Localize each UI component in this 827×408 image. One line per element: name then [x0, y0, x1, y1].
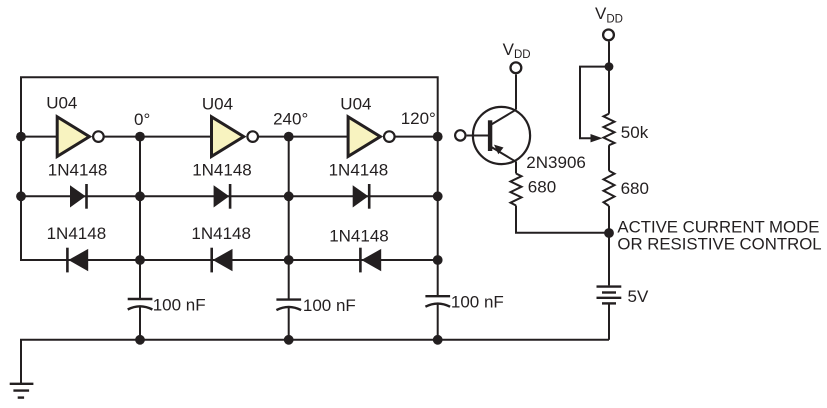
wire feedback loop: row2, left rail, top rail, right rail	[21, 77, 438, 296]
diode D4 triangle	[68, 249, 88, 271]
svg-text:1N4148: 1N4148	[48, 161, 108, 180]
wire main row node 120deg	[395, 136, 438, 138]
diode D6 1N4148 cathode bar	[359, 248, 362, 273]
svg-text:120°: 120°	[401, 109, 436, 128]
wire column 2 upper	[288, 137, 290, 300]
inverter U2 bubble	[247, 131, 258, 142]
wire column 1 upper	[139, 137, 141, 299]
svg-text:U04: U04	[202, 94, 233, 113]
svg-text:U04: U04	[46, 94, 77, 113]
inverter U3 triangle	[348, 117, 380, 157]
svg-text:5V: 5V	[628, 287, 649, 306]
wire column 2 lower	[288, 307, 290, 340]
diode D3 1N4148 triangle	[353, 185, 369, 207]
wire 50k to 680	[608, 145, 610, 171]
diode D1 1N4148 triangle	[70, 185, 86, 207]
node dot row1 right	[433, 191, 443, 201]
diode D5 triangle	[213, 249, 233, 271]
ground bar 2	[13, 389, 29, 391]
svg-text:VDD: VDD	[595, 4, 623, 25]
wire pot wiper loop	[580, 67, 609, 139]
wire base terminal to Q1	[467, 135, 488, 137]
diode D2 1N4148 triangle	[214, 185, 230, 207]
node dot rail col1	[135, 335, 145, 345]
node dot rail col2	[284, 335, 294, 345]
capacitor C3 top plate	[425, 295, 450, 297]
svg-text:240°: 240°	[273, 110, 308, 129]
node dot active node	[604, 228, 614, 238]
svg-text:1N4148: 1N4148	[191, 224, 251, 243]
svg-text:1N4148: 1N4148	[47, 224, 107, 243]
node dot row2 col2	[284, 255, 294, 265]
terminal Vdd2 circle	[603, 30, 614, 41]
terminal input circle	[455, 130, 465, 140]
diode D4 1N4148 cathode bar	[66, 248, 69, 273]
svg-text:VDD: VDD	[503, 40, 531, 61]
wire main row node 0deg	[104, 136, 211, 138]
transistor Q1 base bar	[488, 120, 492, 151]
resistor R1 680 zigzag	[511, 174, 522, 206]
capacitor C1 curved plate	[128, 306, 153, 309]
node dot row1 left	[16, 191, 26, 201]
wire right oscillator rail lower	[437, 304, 439, 340]
wire main row node 240deg	[259, 136, 349, 138]
battery B1 plate long bottom	[597, 297, 622, 299]
ground bar 3	[18, 396, 24, 398]
svg-text:2N3906: 2N3906	[526, 153, 586, 172]
potentiometer R2 50k zigzag	[604, 114, 615, 146]
diode D5 1N4148 cathode bar	[210, 248, 213, 273]
svg-text:100 nF: 100 nF	[153, 296, 206, 315]
wire main row input to U1	[21, 136, 58, 138]
wire node to battery	[608, 233, 610, 285]
node dot 240deg	[284, 132, 294, 142]
diode D6 triangle	[361, 249, 381, 271]
inverter U1 triangle	[57, 117, 89, 157]
inverter U1 bubble	[93, 131, 104, 142]
diode D2 cathode bar	[229, 184, 232, 209]
battery B1 plate short	[602, 291, 616, 293]
diode D3 cathode bar	[368, 184, 371, 209]
terminal Vdd1 circle	[511, 62, 522, 73]
wire battery to ground rail	[608, 304, 610, 340]
wire Q1 collector diagonal	[491, 110, 517, 125]
svg-text:1N4148: 1N4148	[329, 161, 389, 180]
node dot rail col3	[433, 335, 443, 345]
wire Vdd to Q1	[515, 74, 517, 109]
node dot row1 col1	[135, 191, 145, 201]
battery B1 plate short bottom	[602, 302, 616, 304]
svg-text:100 nF: 100 nF	[451, 293, 504, 312]
battery B1 plate long top	[597, 285, 622, 287]
wire R1 to node	[516, 206, 609, 233]
node dot row1 col2	[284, 191, 294, 201]
resistor R3 680 zigzag	[604, 171, 615, 206]
svg-text:680: 680	[528, 178, 556, 197]
node dot row2 right	[433, 255, 443, 265]
svg-text:OR RESISTIVE CONTROL: OR RESISTIVE CONTROL	[617, 235, 821, 254]
svg-text:100 nF: 100 nF	[303, 296, 356, 315]
wire column 1 lower	[139, 307, 141, 340]
wire Q1 emitter diagonal	[491, 147, 517, 162]
inverter U2 triangle	[212, 117, 244, 157]
wire bottom ground rail and ground stem	[21, 340, 609, 383]
inverter U3 bubble	[384, 131, 395, 142]
svg-text:U04: U04	[340, 94, 371, 113]
transistor Q1 2N3906 body circle	[473, 107, 530, 164]
wire 680 to node	[608, 206, 610, 233]
wire diode row 1	[21, 195, 438, 197]
node dot 0deg	[135, 132, 145, 142]
capacitor C1 top plate	[128, 298, 153, 300]
capacitor C2 top plate	[276, 298, 301, 300]
svg-text:0°: 0°	[134, 110, 150, 129]
node dot row2 col1	[135, 255, 145, 265]
svg-text:1N4148: 1N4148	[329, 227, 389, 246]
node dot main row left	[16, 132, 26, 142]
capacitor C2 curved plate	[276, 307, 301, 310]
node dot 120deg	[433, 132, 443, 142]
svg-text:680: 680	[621, 179, 649, 198]
wire Q1 to R1	[515, 162, 517, 174]
node dot pot top	[605, 62, 614, 71]
pot wiper arrowhead	[591, 134, 603, 142]
transistor Q1 emitter arrow	[494, 145, 504, 155]
svg-text:50k: 50k	[621, 123, 649, 142]
capacitor C3 curved plate	[425, 304, 450, 307]
wire Vdd2 down	[608, 41, 610, 113]
svg-text:1N4148: 1N4148	[192, 161, 252, 180]
diode D1 cathode bar	[85, 184, 88, 209]
ground bar 1	[10, 383, 34, 385]
